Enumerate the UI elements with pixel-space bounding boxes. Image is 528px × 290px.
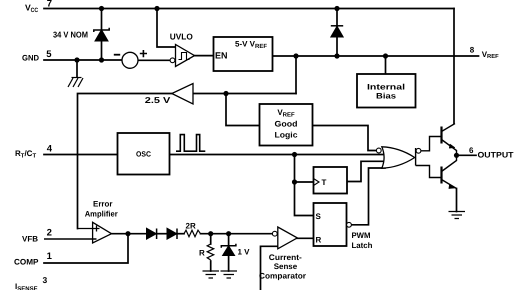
svg-text:1 V: 1 V: [238, 248, 251, 257]
wire UVLO top input from Vcc: [157, 9, 176, 48]
svg-text:34 V NOM: 34 V NOM: [53, 29, 88, 39]
wire Vcc top rail: [44, 8, 454, 10]
svg-text:T: T: [322, 178, 327, 187]
box T flip-flop: [314, 167, 348, 194]
svg-text:Sense: Sense: [274, 262, 298, 271]
svg-text:8: 8: [470, 45, 475, 54]
svg-text:2R: 2R: [186, 222, 196, 231]
svg-text:2: 2: [47, 228, 52, 239]
svg-text:1: 1: [47, 251, 53, 262]
svg-text:Latch: Latch: [352, 241, 373, 250]
wire EA output line: [112, 233, 147, 235]
wire GND line circle to UVLO: [138, 59, 170, 61]
wire OSC output to gate: [170, 154, 386, 156]
wire diode to top rail: [336, 9, 338, 57]
wire latch output to gate: [352, 168, 386, 225]
diode D2: [167, 228, 177, 239]
wire T output to gate: [347, 161, 385, 181]
error amplifier U-EA: [93, 222, 112, 243]
wire 1V zener leads: [228, 234, 230, 271]
svg-text:Bias: Bias: [376, 92, 397, 101]
wire comparator output to R: [297, 237, 314, 239]
svg-text:Error: Error: [93, 199, 113, 208]
wire 2.5V buffer input line: [193, 93, 296, 95]
diode to Vcc: [331, 26, 343, 37]
wire 2.5V output to error amp: [78, 94, 172, 229]
svg-text:4: 4: [47, 143, 53, 154]
svg-text:UVLO: UVLO: [170, 31, 193, 41]
svg-text:6: 6: [469, 146, 474, 155]
svg-text:OSC: OSC: [136, 149, 152, 158]
box VREF good logic: [260, 104, 313, 146]
box internal bias: [357, 74, 416, 108]
svg-text:Comparator: Comparator: [259, 272, 306, 281]
wire internal bias drop: [385, 56, 387, 74]
wire VREF line: [273, 55, 479, 57]
svg-text:R: R: [199, 249, 205, 258]
zener diode 34V: [94, 28, 109, 41]
wire output node to pin 6: [457, 154, 477, 156]
svg-text:Internal: Internal: [367, 83, 405, 92]
svg-text:CC: CC: [31, 7, 39, 14]
oscillator pulse waveform: [176, 135, 205, 152]
source circle: [122, 52, 138, 68]
wire ground tap: [76, 60, 78, 77]
ground under 1V zener: [221, 271, 238, 278]
wire lower emitter to ground: [456, 189, 458, 212]
svg-text:OUTPUT: OUTPUT: [478, 151, 514, 160]
svg-text:Logic: Logic: [275, 131, 299, 140]
svg-text:Good: Good: [275, 120, 298, 129]
wire T input branch: [295, 181, 314, 183]
wire diode link: [157, 233, 168, 235]
box OSC: [118, 133, 170, 175]
svg-text:VFB: VFB: [22, 235, 38, 244]
wire zener 34V vertical: [101, 9, 103, 61]
resistor 2R zigzag: [184, 230, 201, 237]
ground under R: [203, 271, 220, 278]
transistor Q2 lower: [442, 155, 457, 188]
gate output bar and branches: [416, 137, 442, 178]
current sense comparator: [278, 227, 298, 249]
svg-text:GND: GND: [22, 54, 39, 63]
wire R resistor top: [210, 234, 212, 244]
wire good logic to gate: [313, 126, 377, 151]
transistor Q1 upper: [442, 124, 457, 156]
wire after 2R to comparator: [201, 233, 229, 235]
wire VREF down to 2.5V buffer input: [295, 56, 297, 94]
svg-text:5: 5: [46, 49, 52, 60]
wire Isense input: [261, 246, 278, 290]
svg-text:S: S: [316, 212, 322, 221]
wire comparator clamp input: [229, 233, 272, 235]
wire after diode 2: [177, 233, 185, 235]
wire osc vertical to T and S: [295, 155, 314, 216]
wire R resistor bottom: [210, 261, 212, 271]
ground output stage: [449, 212, 466, 219]
svg-text:2.5 V: 2.5 V: [145, 95, 171, 105]
svg-text:3: 3: [43, 275, 48, 285]
wire GND line left: [44, 59, 122, 61]
OR gate U-NOR: [382, 147, 415, 168]
svg-text:PWM: PWM: [352, 231, 371, 240]
wire UVLO output to EN: [195, 55, 214, 57]
wire right rail down to upper collector: [453, 9, 455, 124]
svg-text:COMP: COMP: [14, 258, 39, 267]
svg-text:Current-: Current-: [269, 253, 302, 262]
2.5V reference buffer: [172, 84, 193, 105]
svg-text:7: 7: [47, 0, 52, 10]
svg-text:EN: EN: [215, 51, 228, 61]
svg-text:Amplifier: Amplifier: [85, 210, 118, 219]
diode D1: [147, 228, 157, 239]
wire good logic feed: [226, 94, 260, 126]
UVLO comparator triangle: [176, 45, 195, 67]
earth ground (chassis): [68, 78, 83, 88]
wire RT/CT line: [44, 154, 118, 156]
wire COMP line to EA output: [44, 234, 128, 263]
box PWM latch: [314, 203, 347, 246]
resistor R zigzag: [207, 244, 214, 260]
svg-text:R: R: [316, 236, 322, 245]
box 5-V VREF: [214, 37, 273, 71]
zener diode 1V: [221, 244, 236, 256]
